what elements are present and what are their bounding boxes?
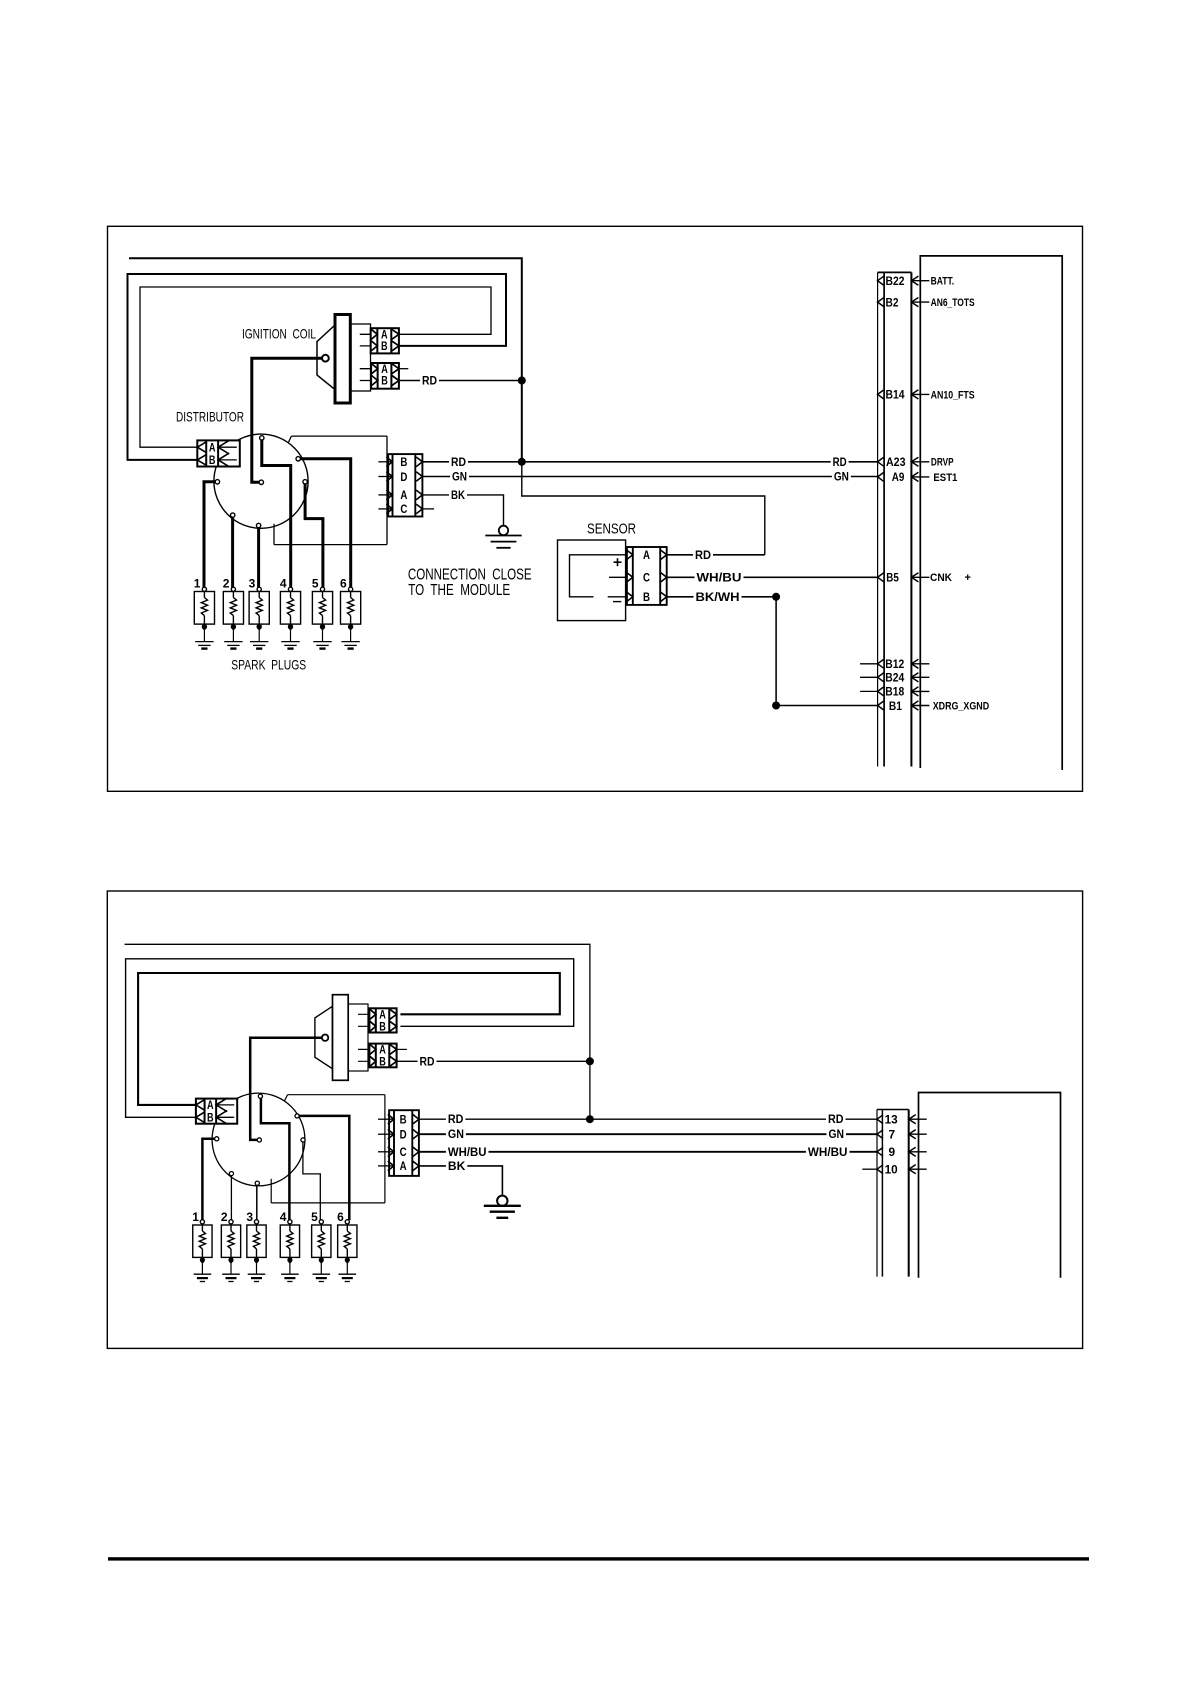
wire: coil lower A stub (bottom): [397, 1048, 407, 1050]
wire: distributor terminal to spark plug 6: [298, 459, 351, 588]
ignition coil secondary block: [350, 324, 370, 391]
svg-text:CNK: CNK: [930, 572, 952, 584]
svg-text:GN: GN: [829, 1127, 845, 1141]
label BK/WH: [694, 591, 742, 603]
ignition coil tower rectangle: [335, 315, 350, 404]
spark plug 2: [223, 592, 243, 625]
pin B24: [860, 676, 878, 678]
svg-text:GN: GN: [452, 470, 467, 484]
label BK: [449, 490, 467, 502]
svg-text:1: 1: [192, 1210, 199, 1224]
sensor internal B lead: [608, 596, 627, 598]
svg-text:4: 4: [280, 576, 287, 590]
svg-text:XDRG_XGND: XDRG_XGND: [933, 700, 990, 712]
wire: distributor terminal to spark plug 5: [305, 483, 323, 588]
svg-text:3: 3: [249, 576, 256, 590]
pin 9 (bottom): [877, 1147, 883, 1156]
pin 10 (bottom): [862, 1168, 877, 1170]
svg-text:BK/WH: BK/WH: [696, 590, 740, 604]
wire: distributor to spark plug 3 (bottom): [256, 1184, 258, 1220]
spark plug 4 (bottom): [280, 1225, 299, 1257]
svg-text:RD: RD: [451, 455, 466, 469]
wire: distributor terminal to spark plug 4: [262, 439, 291, 588]
wire: module BK to ground (bottom): [419, 1166, 503, 1196]
label GN (module): [450, 471, 469, 483]
svg-text:RD: RD: [833, 455, 847, 469]
spark plug 1 (bottom): [193, 1225, 212, 1257]
wire: sensor WH/BU to ECM B5: [667, 576, 878, 578]
top diagram border frame: [108, 226, 1083, 791]
svg-text:B1: B1: [889, 699, 902, 713]
wire: module BK to ground: [422, 495, 503, 526]
pin 13 (bottom): [877, 1115, 883, 1124]
svg-text:GN: GN: [448, 1127, 464, 1141]
spark plug 4: [280, 592, 300, 625]
svg-text:B: B: [643, 590, 650, 604]
wire: module C stub: [422, 508, 434, 510]
wire: distributor to spark plug 4 (bottom): [261, 1097, 290, 1220]
label RD (module): [449, 456, 468, 468]
svg-text:6: 6: [337, 1210, 344, 1224]
sensor connector A C B: [627, 547, 667, 605]
svg-text:WH/BU: WH/BU: [808, 1145, 848, 1159]
label RD (sensor): [693, 549, 713, 561]
footer rule: [108, 1557, 1089, 1560]
svg-text:10: 10: [885, 1163, 898, 1177]
pin B1: [878, 701, 884, 710]
svg-text:RD: RD: [448, 1112, 464, 1126]
label RD (at A23): [831, 456, 849, 468]
spark plug 2 (bottom): [221, 1225, 240, 1257]
label BK (bottom): [446, 1161, 467, 1173]
ground (connection close to the module): [499, 526, 508, 535]
ECM connector strip: [877, 272, 879, 766]
svg-text:AN6_TOTS: AN6_TOTS: [931, 297, 975, 309]
junction dot RD/coil: [518, 377, 526, 385]
module pins connector B D A C: [388, 454, 422, 516]
wire: coil A upper loop to distributor A (bottom): [138, 973, 560, 1105]
label RD (coil, bottom): [418, 1056, 437, 1068]
distributor terminals (cap towers): [260, 436, 264, 440]
module pins connector B D C A (bottom): [389, 1110, 419, 1176]
svg-text:A: A: [400, 1159, 407, 1173]
svg-text:A: A: [643, 548, 650, 562]
coil connector stubs upper (bottom): [358, 1013, 376, 1015]
svg-text:RD: RD: [828, 1112, 844, 1126]
wire: RD net top bus (bottom diagram): [125, 944, 590, 1119]
pin B5: [878, 573, 884, 582]
svg-text:1: 1: [194, 576, 201, 590]
coil connector lower A/B: [371, 363, 399, 389]
wire: RD net vertical extension to sensor RD branch: [522, 462, 765, 555]
svg-text:B: B: [207, 1113, 214, 1125]
svg-text:A: A: [400, 488, 407, 502]
svg-text:A: A: [381, 330, 388, 342]
distributor terminals (bottom): [258, 1094, 262, 1098]
wire: coil HT lead to distributor center (bottom): [250, 1038, 322, 1140]
svg-text:DISTRIBUTOR: DISTRIBUTOR: [176, 409, 244, 425]
label WH/BU (module, bottom): [446, 1146, 489, 1158]
ECM module box: [920, 256, 1062, 770]
svg-text:B18: B18: [885, 685, 904, 699]
coil connector stubs lower (bottom): [358, 1048, 376, 1050]
svg-text:A23: A23: [886, 455, 906, 469]
svg-text:IGNITION COIL: IGNITION COIL: [242, 326, 316, 342]
wire: coil A upper loop (line3) to distributor A: [140, 287, 491, 447]
coil connector stubs upper: [360, 333, 377, 335]
svg-text:B22: B22: [886, 274, 905, 288]
pin A23: [878, 457, 884, 466]
svg-text:6: 6: [340, 576, 347, 590]
label WH/BU (at pin 9): [806, 1146, 850, 1158]
wire: module RD to pin 13 (bottom): [419, 1118, 877, 1120]
pin B12: [860, 663, 878, 665]
svg-text:13: 13: [885, 1113, 898, 1127]
pin B18: [860, 690, 878, 692]
ignition coil tower rectangle (bottom): [333, 995, 349, 1081]
spark plug 3: [249, 592, 269, 625]
ignition coil secondary block (bottom): [348, 1004, 368, 1071]
wire: module GN to ECM A9: [422, 476, 877, 478]
svg-text:A: A: [379, 1010, 386, 1022]
sensor internal C lead: [609, 576, 627, 578]
wire: BK/WH down to B1 row: [776, 597, 878, 706]
svg-text:+: +: [965, 572, 971, 584]
svg-text:5: 5: [311, 1210, 318, 1224]
label RD (coil): [420, 375, 439, 387]
wire: sensor BK/WH to junction: [667, 596, 776, 598]
svg-text:A9: A9: [892, 470, 905, 484]
svg-text:7: 7: [889, 1128, 896, 1142]
svg-text:B2: B2: [886, 295, 899, 309]
junction dot RD bus (bottom): [586, 1115, 594, 1123]
pin B2: [878, 298, 884, 307]
module box (connection close to the module): [291, 435, 387, 437]
svg-text:AN10_FTS: AN10_FTS: [931, 389, 975, 401]
wire: coil HT lead to distributor center: [252, 358, 322, 482]
ECM connector strip (bottom): [876, 1110, 878, 1277]
ground (bottom): [497, 1196, 507, 1206]
svg-text:B: B: [379, 1022, 386, 1034]
svg-text:5: 5: [312, 576, 319, 590]
sensor internal + lead: [570, 555, 627, 597]
svg-text:B14: B14: [886, 388, 905, 402]
svg-text:BK: BK: [451, 488, 465, 502]
svg-text:A: A: [209, 442, 216, 454]
wire: module RD to ECM A23: [422, 461, 877, 463]
wire: distributor to spark plug 6 (bottom): [297, 1116, 349, 1220]
distributor pickup connector A/B (bottom): [196, 1099, 237, 1124]
label GN (module, bottom): [446, 1129, 466, 1141]
svg-text:2: 2: [223, 576, 230, 590]
wire: distributor terminal to spark plug 2: [231, 516, 234, 588]
svg-text:B24: B24: [885, 671, 904, 685]
wire: distributor terminal to spark plug 1: [204, 482, 217, 588]
wire: coil lower A stub: [399, 368, 408, 370]
wire: distributor to spark plug 1 (bottom): [202, 1139, 216, 1220]
wire: sensor RD to RD net: [667, 554, 765, 556]
wire: distributor to spark plug 5 (bottom): [303, 1141, 320, 1220]
svg-text:3: 3: [246, 1210, 253, 1224]
wire: coil B upper loop (line2) to distributor B: [128, 274, 507, 460]
svg-text:GN: GN: [834, 470, 849, 484]
ignition coil HT terminal (bottom): [322, 1035, 328, 1041]
svg-text:B: B: [381, 376, 388, 388]
pin A9: [878, 473, 884, 482]
svg-text:EST1: EST1: [933, 472, 957, 484]
svg-text:B12: B12: [885, 657, 904, 671]
svg-text:RD: RD: [422, 374, 437, 388]
svg-text:TO THE MODULE: TO THE MODULE: [408, 582, 510, 599]
wire: distributor terminal to spark plug 3: [257, 526, 260, 588]
svg-text:D: D: [400, 470, 407, 484]
bottom diagram border frame: [107, 891, 1082, 1348]
junction dot RD/coil (bottom): [586, 1057, 594, 1065]
svg-text:RD: RD: [695, 548, 711, 562]
ignition coil HT terminal: [322, 355, 329, 362]
label WH/BU: [695, 572, 744, 584]
svg-text:A: A: [379, 1045, 386, 1057]
distributor cap circle (bottom): [212, 1093, 305, 1186]
svg-text:B: B: [379, 1057, 386, 1069]
svg-text:C: C: [643, 571, 650, 585]
coil connector upper A/B: [371, 328, 399, 353]
ignition coil body trapezoid: [317, 325, 335, 390]
wire: coil lower B RD to junction (bottom): [397, 1060, 590, 1062]
ECM module box (bottom): [919, 1093, 1061, 1278]
junction dot at B1 wire: [772, 702, 780, 710]
pin B14: [878, 390, 884, 399]
svg-text:SENSOR: SENSOR: [587, 521, 636, 538]
label RD (module, bottom): [446, 1114, 466, 1126]
svg-text:4: 4: [280, 1210, 287, 1224]
spark plug 6: [341, 592, 361, 625]
svg-text:B: B: [209, 455, 216, 467]
distributor cap circle: [214, 434, 308, 528]
wire: coil B upper loop to distributor B (bottom): [126, 959, 574, 1118]
wire: coil lower B RD to junction: [399, 380, 522, 382]
coil connector lower A/B (bottom): [369, 1044, 396, 1068]
pin B22: [878, 276, 884, 285]
svg-text:D: D: [400, 1128, 407, 1142]
sensor minus sign: [613, 601, 621, 603]
svg-text:B: B: [381, 341, 388, 353]
sensor plus sign: [614, 561, 622, 563]
svg-text:A: A: [381, 364, 388, 376]
coil connector upper A/B (bottom): [369, 1008, 396, 1032]
svg-text:DRVP: DRVP: [931, 457, 954, 469]
wire: distributor to spark plug 2 (bottom): [230, 1175, 232, 1221]
coil connector stubs lower: [360, 368, 378, 370]
spark plug 5 (bottom): [312, 1225, 331, 1257]
junction dot RD bus / module RD: [518, 458, 526, 466]
svg-text:C: C: [400, 1145, 407, 1159]
wire: module WH/BU to pin 9 (bottom): [419, 1151, 877, 1153]
spark plug 6 (bottom): [338, 1225, 357, 1257]
svg-text:9: 9: [889, 1145, 896, 1159]
svg-text:BK: BK: [448, 1159, 466, 1173]
wire: module GN to pin 7 (bottom): [419, 1133, 877, 1135]
svg-text:B: B: [400, 455, 407, 469]
svg-text:B: B: [400, 1113, 407, 1127]
wire: RD net top bus (coil B lower to vertical x=521): [129, 258, 522, 462]
spark plug 3 (bottom): [247, 1225, 266, 1257]
label GN (at A9): [832, 471, 851, 483]
label RD (at pin 13): [826, 1114, 846, 1126]
svg-text:A: A: [207, 1100, 214, 1112]
spark plug 5: [312, 592, 332, 625]
distributor pickup connector A/B: [197, 440, 240, 466]
ignition coil body trapezoid (bottom): [315, 1006, 333, 1068]
module box (bottom): [288, 1094, 385, 1096]
svg-text:RD: RD: [420, 1054, 435, 1068]
svg-text:C: C: [400, 502, 407, 516]
svg-text:WH/BU: WH/BU: [448, 1145, 487, 1159]
spark plug 1: [194, 592, 214, 625]
svg-text:2: 2: [221, 1210, 228, 1224]
pin 7 (bottom): [877, 1130, 883, 1139]
junction dot BK/WH: [772, 593, 780, 601]
svg-text:BATT.: BATT.: [931, 276, 955, 288]
svg-text:B5: B5: [886, 571, 899, 585]
label GN (at pin 7): [827, 1129, 847, 1141]
svg-text:WH/BU: WH/BU: [697, 570, 742, 584]
sensor box: [558, 540, 626, 621]
svg-text:SPARK PLUGS: SPARK PLUGS: [231, 657, 306, 673]
